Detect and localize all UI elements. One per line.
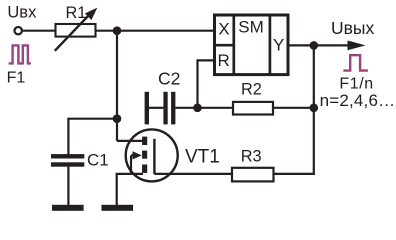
svg-text:R1: R1: [66, 4, 87, 22]
junction dot Y node: [310, 41, 319, 50]
capacitor C1: [51, 154, 84, 167]
svg-text:n=2,4,6…: n=2,4,6…: [320, 91, 396, 110]
resistor R1: [55, 8, 98, 51]
capacitor C2: [145, 92, 176, 125]
wire source lead: [117, 174, 143, 205]
wire gate node to C1: [68, 119, 117, 155]
input terminal Uvx: [15, 27, 22, 34]
wire R1 to block X input: [97, 30, 215, 32]
svg-text:Uвых: Uвых: [331, 18, 375, 38]
svg-text:F1/n: F1/n: [339, 75, 373, 92]
wire terminal to R1: [22, 30, 55, 32]
svg-text:X: X: [218, 20, 229, 39]
pulse waveform F1: [9, 45, 31, 63]
svg-text:R: R: [218, 51, 230, 70]
wire feedback vertical: [313, 45, 315, 175]
wire C1 to ground: [67, 167, 69, 206]
junction dot R2 node: [310, 104, 319, 113]
svg-text:SM: SM: [238, 18, 263, 37]
junction dot gate node: [113, 114, 122, 123]
wire drain lead: [117, 140, 143, 142]
resistor R2: [233, 102, 273, 115]
wire gate to R3: [154, 173, 232, 175]
wire C2 node to R2: [198, 107, 233, 109]
junction dot node A: [113, 26, 122, 35]
svg-text:C1: C1: [87, 150, 109, 169]
transistor VT1: [126, 129, 178, 181]
pulse waveform F1/n: [343, 55, 368, 70]
wire to R input of block: [198, 60, 215, 107]
svg-text:Uвх: Uвх: [7, 3, 37, 21]
wire C2 to R2/R-input node: [175, 107, 197, 109]
wire R2 to feedback vertical: [273, 107, 314, 109]
svg-text:Y: Y: [273, 35, 284, 54]
ground bar (C1): [52, 205, 84, 211]
junction dot C2 node: [193, 104, 202, 113]
wire R3 to feedback vertical: [274, 173, 315, 175]
svg-text:VT1: VT1: [185, 147, 220, 168]
wire node A down to drain: [116, 31, 118, 141]
resistor R3: [232, 168, 274, 182]
svg-text:R3: R3: [241, 148, 262, 166]
output arrowhead: [348, 41, 366, 51]
svg-text:R2: R2: [241, 81, 262, 99]
functional block U1 (SM counter): [215, 15, 289, 75]
ground bar (VT1): [102, 205, 134, 211]
svg-text:F1: F1: [7, 70, 26, 87]
svg-text:C2: C2: [158, 69, 180, 89]
wire Y output: [290, 44, 349, 46]
